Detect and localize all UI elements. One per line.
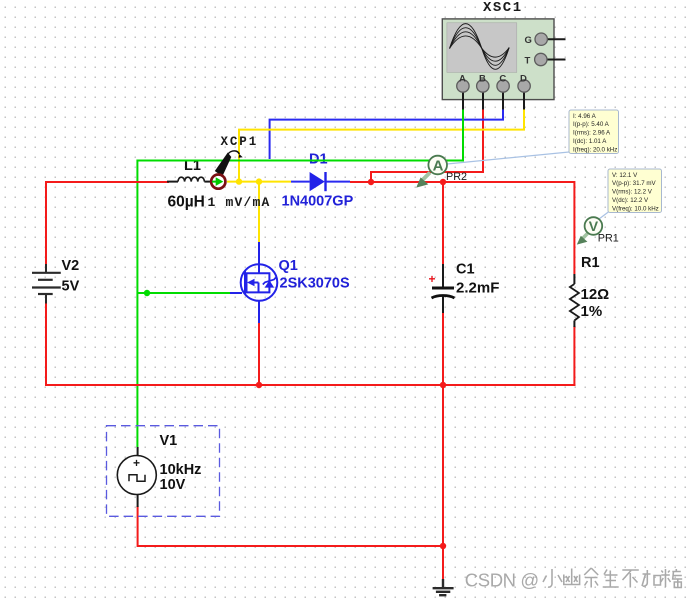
余: [584, 568, 598, 588]
svg-text:I: 4.96 A: I: 4.96 A: [573, 113, 597, 120]
svg-text:V(p-p): 31.7 mV: V(p-p): 31.7 mV: [612, 180, 657, 187]
pin A: [457, 74, 469, 110]
生: [603, 570, 619, 588]
junction node output-C1: [440, 179, 446, 185]
wire red to scope channel B: [371, 108, 483, 182]
svg-text:+: +: [133, 456, 140, 470]
wire red Q1 source: [258, 322, 260, 385]
svg-text:10V: 10V: [160, 477, 186, 493]
svg-text:C: C: [499, 74, 506, 85]
junction node gate: [144, 290, 150, 296]
source V1 square wave: [107, 426, 220, 517]
probe PR2: [416, 152, 569, 188]
svg-text:Q1: Q1: [279, 258, 298, 274]
svg-text:C1: C1: [456, 262, 475, 278]
svg-text:I(dc): 1.01 A: I(dc): 1.01 A: [573, 138, 607, 145]
wire red V2 bottom to rail: [45, 303, 47, 385]
wire yellow scope channel D: [239, 108, 524, 182]
svg-text:T: T: [525, 56, 531, 67]
junction node yellow-drain: [256, 178, 262, 184]
svg-text:1N4007GP: 1N4007GP: [282, 194, 354, 210]
junction node V1-ground: [440, 543, 446, 549]
measurement box PR2 current readings: [569, 110, 619, 154]
wire green scope channel A: [137, 108, 463, 447]
糖: [661, 569, 682, 588]
加: [642, 570, 661, 586]
watermark CSDN: [465, 569, 539, 590]
svg-text:I(freq): 20.0 kHz: I(freq): 20.0 kHz: [573, 146, 617, 153]
svg-text:PR1: PR1: [598, 233, 619, 245]
wire yellow Q1 drain branch: [258, 182, 260, 242]
ground: [433, 579, 454, 595]
svg-text:I(p-p): 5.40 A: I(p-p): 5.40 A: [573, 121, 610, 128]
svg-text:D: D: [520, 74, 527, 85]
measurement box PR1 voltage readings: [608, 169, 662, 213]
svg-text:2SK3070S: 2SK3070S: [280, 276, 350, 292]
current probe XCP1: [211, 151, 243, 189]
wire red C1 top lead: [442, 182, 444, 265]
svg-text:V(dc): 12.2 V: V(dc): 12.2 V: [612, 197, 649, 204]
svg-text:1 mV/mA: 1 mV/mA: [208, 195, 271, 210]
svg-text:+: +: [429, 272, 436, 286]
svg-text:A: A: [459, 74, 466, 85]
svg-text:R1: R1: [581, 255, 600, 271]
svg-text:10kHz: 10kHz: [160, 462, 202, 478]
transistor Q1 MOSFET: [230, 242, 277, 323]
svg-text:PR2: PR2: [446, 171, 467, 183]
battery V2: [32, 264, 61, 304]
svg-text:V: 12.1 V: V: 12.1 V: [612, 172, 638, 179]
svg-text:A: A: [433, 158, 444, 175]
小: [543, 569, 562, 587]
resistor R1: [570, 274, 579, 327]
svg-text:XSC1: XSC1: [483, 0, 523, 16]
svg-text:G: G: [525, 35, 532, 46]
junction node rail-Q1: [256, 382, 262, 388]
svg-text:1%: 1%: [581, 303, 603, 320]
svg-text:CSDN @: CSDN @: [465, 569, 539, 590]
wire blue scope channel C to XCP1 output: [270, 108, 503, 159]
svg-text:V(rms): 12.2 V: V(rms): 12.2 V: [612, 189, 653, 196]
wire red V1 bottom rail: [138, 506, 443, 546]
幽: [564, 569, 580, 585]
wire red to ground: [442, 385, 444, 580]
junction node rail-C1: [440, 382, 446, 388]
svg-text:60µH: 60µH: [168, 194, 205, 211]
pin T: [525, 53, 566, 66]
svg-text:XCP1: XCP1: [221, 135, 259, 149]
diode D1: [291, 172, 350, 191]
wire red C1 bottom lead: [442, 312, 444, 385]
svg-text:2.2mF: 2.2mF: [456, 280, 499, 297]
wire red R1 bottom: [573, 326, 575, 386]
wire green Q1 gate: [137, 292, 230, 294]
wire red bottom rail: [45, 384, 575, 386]
不: [622, 570, 639, 588]
svg-text:V2: V2: [62, 258, 80, 274]
wire red top-left from L1 to V2: [46, 182, 169, 264]
svg-text:I(rms): 2.96 A: I(rms): 2.96 A: [573, 130, 611, 137]
pin D: [518, 74, 530, 110]
svg-text:5V: 5V: [62, 278, 80, 294]
inductor L1: [167, 177, 211, 181]
pin B: [477, 74, 489, 110]
svg-text:B: B: [479, 74, 486, 85]
wire red output node: [350, 182, 574, 274]
svg-text:12Ω: 12Ω: [581, 286, 610, 303]
capacitor C1: [432, 264, 455, 313]
svg-text:V(freq): 10.0 kHz: V(freq): 10.0 kHz: [612, 205, 659, 212]
oscilloscope XSC1: [442, 19, 554, 100]
watermark chinese glyphs: [543, 568, 682, 588]
pin G: [525, 33, 566, 46]
junction node yellow-D: [236, 178, 242, 184]
junction node output-scopeB: [368, 179, 374, 185]
svg-text:V1: V1: [160, 433, 178, 449]
pin C: [497, 74, 509, 110]
probe PR1: [577, 212, 609, 245]
wire yellow XCP1 to D1: [227, 181, 291, 183]
